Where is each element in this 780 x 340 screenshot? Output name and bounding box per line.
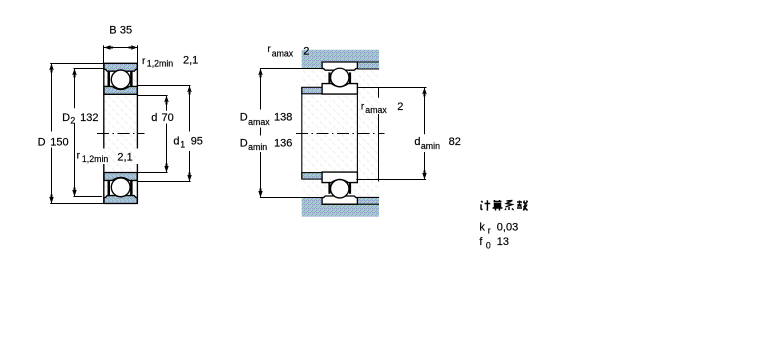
svg-text:35: 35 [120, 25, 132, 37]
housing shoulder face bottom [321, 198, 323, 205]
arrow D bottom [49, 195, 53, 204]
spacer ring bottom [358, 197, 379, 203]
arrow damin top [422, 88, 426, 97]
dimension d_amin 82 [424, 88, 426, 180]
svg-text:d: d [151, 112, 157, 124]
svg-text:2: 2 [397, 101, 403, 113]
glyph shu [517, 201, 528, 211]
spacer top line bottom [357, 196, 379, 198]
计算系数 pseudo glyphs [481, 200, 528, 211]
dimension Da (D_amax / D_amin) [260, 69, 262, 198]
svg-text:82: 82 [449, 136, 461, 148]
ext lines right side [357, 87, 427, 89]
svg-text:D: D [240, 112, 248, 124]
svg-text:70: 70 [162, 112, 174, 124]
shaft left edge [301, 87, 303, 179]
svg-text:136: 136 [274, 137, 292, 149]
svg-text:0: 0 [486, 240, 491, 250]
glyph ji [481, 200, 490, 210]
dimension d 70 [138, 96, 168, 173]
arrow D2 top [72, 69, 76, 78]
svg-text:0,03: 0,03 [497, 221, 518, 233]
svg-text:150: 150 [50, 136, 68, 148]
spacer ring top [358, 63, 379, 69]
svg-text:2,1: 2,1 [183, 55, 198, 67]
svg-text:D: D [240, 137, 248, 149]
housing shoulder line bottom [260, 197, 322, 199]
svg-text:k: k [479, 221, 485, 233]
shaft shoulder top [302, 87, 322, 94]
arrow d bottom [164, 164, 168, 173]
svg-text:95: 95 [191, 136, 203, 148]
svg-text:amax: amax [272, 49, 294, 59]
svg-text:r: r [488, 225, 491, 235]
svg-text:amax: amax [248, 117, 270, 127]
svg-text:138: 138 [274, 112, 292, 124]
hatch field of left bearing [104, 63, 138, 203]
housing shoulder line top [260, 68, 322, 70]
svg-text:2: 2 [70, 116, 75, 126]
arrow d1 bottom [187, 173, 191, 182]
housing seat line bottom [322, 203, 379, 205]
svg-text:amax: amax [365, 105, 387, 115]
glyph suan [493, 200, 503, 211]
bearing upper half [104, 63, 137, 94]
dimension D 150 [50, 64, 104, 204]
dimension B [104, 45, 138, 63]
svg-text:d: d [414, 136, 420, 148]
dimension d1 95 [138, 86, 191, 182]
housing seat line top [322, 61, 379, 63]
bearing upper half (right) [322, 62, 357, 94]
svg-text:13: 13 [497, 236, 509, 248]
arrow B left [104, 45, 113, 50]
housing top [302, 50, 379, 69]
svg-text:132: 132 [80, 112, 98, 124]
svg-text:1,2min: 1,2min [82, 154, 109, 164]
housing bottom [302, 198, 379, 217]
shaft shoulder bottom [302, 173, 322, 180]
arrow D2 bottom [72, 188, 76, 197]
arrow B right [129, 45, 138, 50]
housing shoulder face top [321, 62, 323, 69]
centerline left figure [97, 133, 145, 135]
svg-text:2: 2 [303, 45, 309, 57]
centerline right figure [296, 133, 385, 135]
svg-text:amin: amin [248, 142, 267, 152]
svg-text:D: D [38, 136, 46, 148]
arrow d top [164, 96, 168, 105]
svg-text:1,2min: 1,2min [147, 59, 174, 69]
arrow damin bottom [422, 171, 426, 180]
svg-text:amin: amin [421, 141, 440, 151]
bearing lower half (right, mirror) [322, 172, 357, 204]
spacer bottom line top [357, 68, 379, 70]
bearing left side / bore edge [103, 63, 105, 203]
svg-text:2,1: 2,1 [117, 152, 132, 164]
hatch field of right figure [302, 50, 379, 217]
svg-text:D: D [62, 112, 70, 124]
arrow Da top [258, 69, 262, 78]
dimension D2 132 [73, 69, 103, 197]
svg-text:B: B [109, 25, 116, 37]
shaft right edge [356, 94, 358, 172]
arrow D top [49, 64, 53, 73]
bearing lower half (mirror) [104, 172, 137, 203]
glyph xi [505, 201, 514, 211]
arrow Da bottom [258, 189, 262, 198]
bearing right side / bore edge [136, 63, 138, 203]
svg-text:d: d [173, 136, 179, 148]
arrow d1 top [187, 86, 191, 95]
svg-text:1: 1 [180, 140, 185, 150]
r_amax leader (right) [378, 88, 380, 182]
